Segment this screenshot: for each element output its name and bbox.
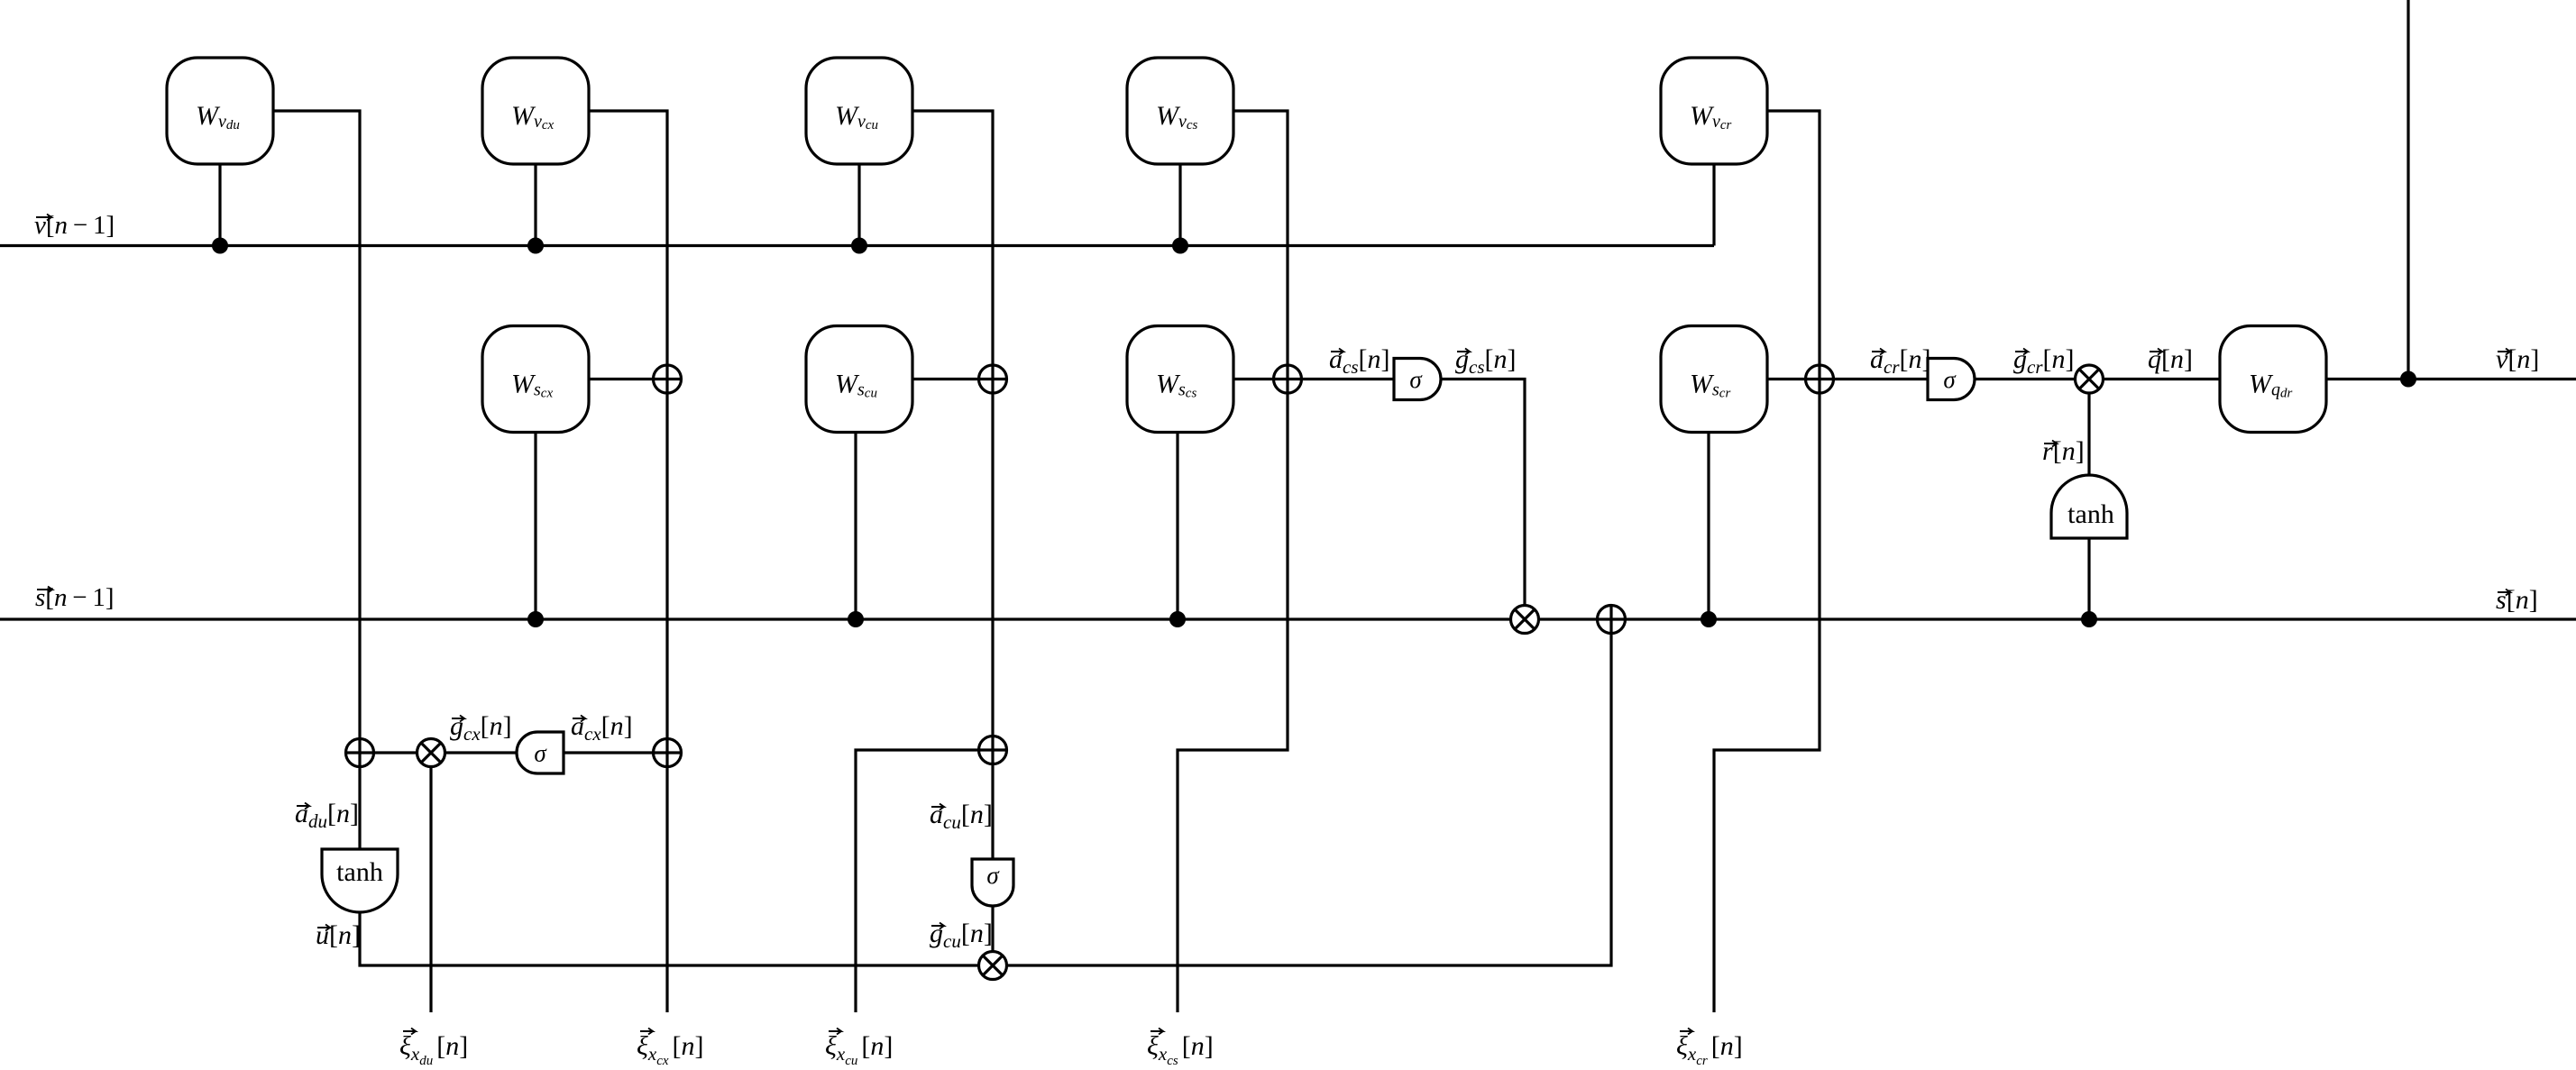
svg-text:s[n]: s[n]	[2496, 585, 2538, 615]
label a_cr[n]	[1870, 344, 1931, 378]
wire tanh stem to s bus	[2087, 538, 2090, 619]
wire v[n-1] bus	[0, 244, 1714, 247]
label a_cs[n]	[1329, 344, 1390, 378]
wire a_cr to sigma	[1820, 378, 1928, 380]
weight box W_s_cs	[1127, 326, 1233, 433]
wire g_cr to W_q_dr	[1975, 378, 2220, 380]
label g_cr[n]	[2013, 344, 2075, 378]
label xi_x_cr[n]	[1676, 1029, 1743, 1069]
adder (cu xi)	[979, 736, 1007, 764]
wire W_v_du stem	[218, 164, 221, 246]
wire W_v_cu output column	[912, 111, 993, 965]
wire W_s_cr stem	[1707, 433, 1710, 619]
sigma gate (cx)	[517, 732, 564, 773]
wire W_v_cs stem	[1178, 164, 1181, 246]
wire W_s_cs stem	[1176, 433, 1178, 619]
wire W_s_cx output	[589, 378, 667, 380]
wire v[n] output	[2326, 378, 2576, 380]
label v[n]	[2496, 344, 2539, 374]
weight box W_v_cr	[1661, 58, 1767, 164]
tanh gate (du)	[322, 849, 398, 912]
svg-text:v[n]: v[n]	[2496, 344, 2539, 374]
svg-text:v[n − 1]: v[n − 1]	[34, 211, 115, 240]
weight box W_v_cu	[806, 58, 912, 164]
junction s bus cx	[527, 611, 544, 627]
label v[n-1]	[34, 211, 115, 240]
label s[n]	[2496, 585, 2538, 615]
tanh gate (r)	[2051, 475, 2127, 538]
wire g_cs to multiplier	[1441, 380, 1525, 620]
adder (cx mid)	[654, 365, 682, 393]
wire W_v_cr stem	[1712, 164, 1715, 246]
label u[n]	[316, 920, 361, 950]
adder (s bus)	[1598, 606, 1626, 634]
adder (cx bottom)	[654, 739, 682, 767]
label xi_x_du[n]	[399, 1029, 468, 1069]
svg-text:acu[n]: acu[n]	[930, 800, 993, 833]
weight box W_v_cx	[482, 58, 589, 164]
weight box W_q_dr	[2220, 326, 2326, 433]
wire W_v_cx output column	[589, 111, 667, 1012]
weight box W_s_cu	[806, 326, 912, 433]
adder (cu mid)	[979, 365, 1007, 393]
junction s bus cr	[1701, 611, 1717, 627]
svg-text:σ: σ	[1409, 366, 1423, 393]
label a_cu[n]	[930, 800, 993, 833]
svg-text:u[n]: u[n]	[316, 920, 361, 950]
wire W_s_cx stem	[534, 433, 536, 619]
wire a_cs to sigma	[1288, 378, 1394, 380]
label g_cx[n]	[450, 711, 512, 745]
wire xi_x_cu stub	[856, 750, 993, 1012]
label s[n-1]	[35, 583, 115, 612]
svg-text:adu[n]: adu[n]	[295, 799, 359, 832]
junction v out recurrence	[2400, 371, 2416, 388]
svg-text:σ: σ	[534, 740, 547, 767]
svg-text:gcx[n]: gcx[n]	[450, 711, 512, 745]
svg-text:acx[n]: acx[n]	[571, 711, 633, 745]
weight box W_v_du	[167, 58, 273, 164]
wire W_v_du output column	[273, 111, 360, 849]
wire r[n] tanh to multiplier	[2087, 380, 2090, 514]
svg-text:gcr[n]: gcr[n]	[2013, 344, 2075, 378]
wire W_s_cs output	[1233, 378, 1288, 380]
svg-text:s[n − 1]: s[n − 1]	[35, 583, 115, 612]
label a_du[n]	[295, 799, 359, 832]
wire W_v_cr output column with jog	[1714, 111, 1820, 1012]
junction v bus cs	[1172, 238, 1188, 254]
multiplier (g_cu)	[979, 952, 1007, 980]
wire W_v_cs output column with jog	[1178, 111, 1288, 1012]
weight box W_s_cr	[1661, 326, 1767, 433]
sigma gate (cu)	[972, 859, 1013, 906]
wire cx bottom chain	[360, 751, 667, 754]
multiplier (xi_du)	[417, 739, 445, 767]
wire xi_x_du stub	[429, 753, 432, 1012]
sigma gate (cs)	[1394, 359, 1441, 400]
label xi_x_cs[n]	[1147, 1029, 1214, 1069]
wire s[n-1] bus	[0, 617, 2576, 620]
wire W_s_cu output	[912, 378, 993, 380]
adder (cr mid)	[1806, 365, 1834, 393]
label r[n]	[2042, 436, 2085, 466]
wire v[n] recurrence up	[2406, 0, 2409, 380]
svg-text:r[n]: r[n]	[2042, 436, 2085, 466]
wire W_s_cu stem	[854, 433, 857, 619]
weight box W_v_cs	[1127, 58, 1233, 164]
sigma gate (cr)	[1928, 359, 1975, 400]
svg-text:σ: σ	[1943, 366, 1957, 393]
svg-text:acs[n]: acs[n]	[1329, 344, 1390, 378]
wire W_v_cu stem	[857, 164, 860, 246]
svg-text:q[n]: q[n]	[2148, 344, 2193, 374]
junction v bus cx	[527, 238, 544, 254]
svg-text:acr[n]: acr[n]	[1870, 344, 1931, 378]
label xi_x_cu[n]	[825, 1029, 893, 1069]
weight box W_s_cx	[482, 326, 589, 433]
wire u[n] bus to adder	[360, 619, 1611, 965]
junction s bus cu	[848, 611, 864, 627]
svg-text:tanh: tanh	[2067, 499, 2114, 529]
svg-text:gcs[n]: gcs[n]	[1455, 344, 1517, 378]
label a_cx[n]	[571, 711, 633, 745]
junction s bus tanh tap	[2081, 611, 2097, 627]
junction v bus du	[212, 238, 228, 254]
adder (du bottom)	[346, 739, 374, 767]
label g_cu[n]	[930, 919, 993, 952]
svg-text:tanh: tanh	[336, 857, 383, 887]
multiplier (g_cs)	[1511, 606, 1539, 634]
label xi_x_cx[n]	[637, 1029, 704, 1069]
svg-text:σ: σ	[986, 862, 1000, 889]
adder (cs mid)	[1274, 365, 1302, 393]
junction s bus cs	[1169, 611, 1186, 627]
wire W_v_cx stem	[534, 164, 536, 246]
label q[n]	[2148, 344, 2193, 374]
junction v bus cu	[851, 238, 867, 254]
svg-text:gcu[n]: gcu[n]	[930, 919, 993, 952]
multiplier (r q)	[2076, 365, 2104, 393]
label g_cs[n]	[1455, 344, 1517, 378]
wire W_s_cr output	[1767, 378, 1820, 380]
